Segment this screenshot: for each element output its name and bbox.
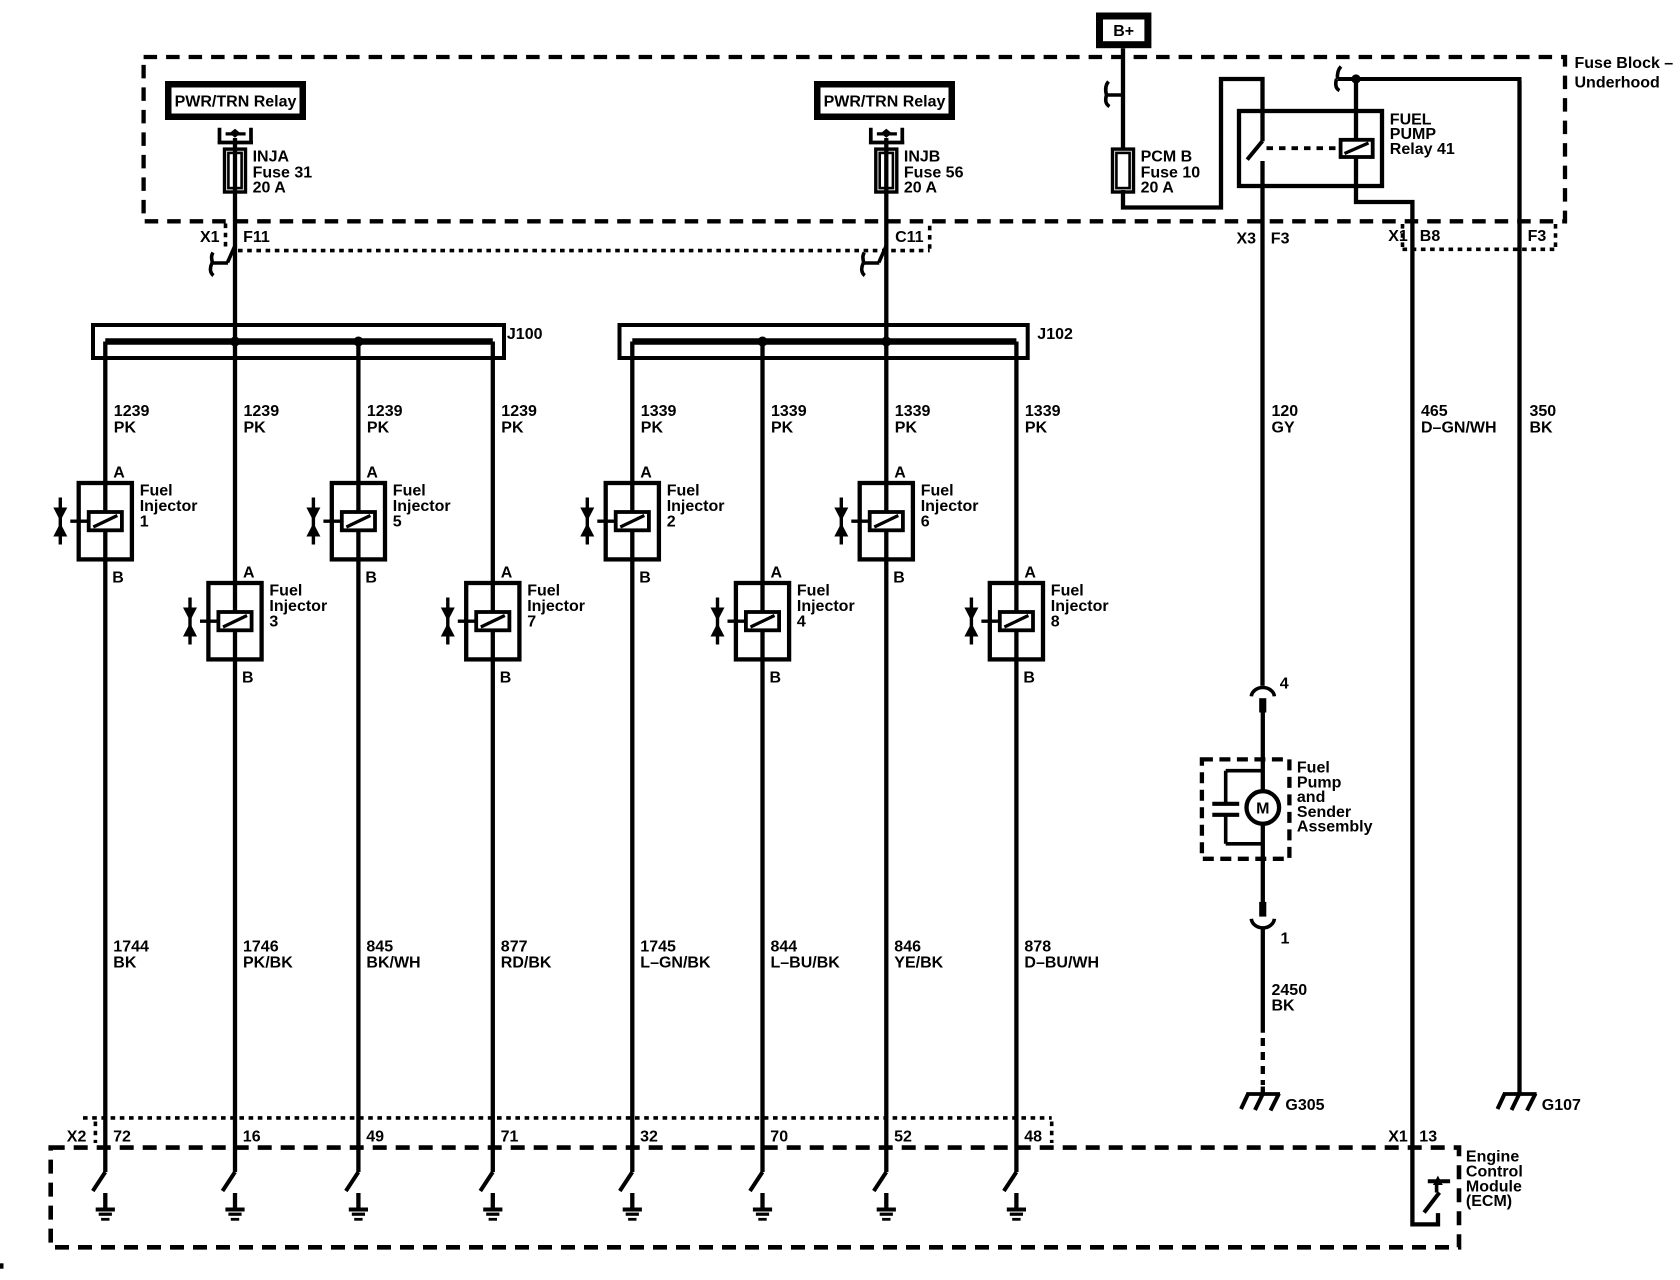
wire coil to ECM 465 D-GN/WH bbox=[1356, 157, 1438, 1224]
fuel injector 4 bbox=[736, 583, 789, 659]
svg-text:PCM B: PCM B bbox=[1141, 149, 1193, 166]
in-line connector pin 1 bbox=[1259, 902, 1266, 917]
injector 6 valve symbol bbox=[840, 498, 843, 545]
svg-text:J100: J100 bbox=[507, 326, 543, 343]
capacitor branch bbox=[1226, 771, 1263, 803]
injector 7 coil bbox=[476, 612, 509, 630]
svg-text:A: A bbox=[366, 465, 378, 482]
ECM pin 70 bent terminal bbox=[750, 1172, 763, 1191]
injector 1 stub bbox=[70, 520, 88, 523]
ground (ECM pin 48) bbox=[1014, 1193, 1018, 1209]
svg-text:72: 72 bbox=[113, 1129, 131, 1146]
ECM pin 52 bent terminal bbox=[874, 1172, 887, 1191]
svg-text:BK: BK bbox=[1272, 997, 1296, 1014]
svg-text:Assembly: Assembly bbox=[1297, 819, 1373, 836]
svg-text:878: 878 bbox=[1024, 939, 1051, 956]
svg-text:F3: F3 bbox=[1271, 231, 1290, 248]
fuel injector 2 bbox=[606, 483, 659, 559]
svg-text:B: B bbox=[112, 570, 124, 587]
svg-text:PK: PK bbox=[114, 420, 137, 437]
svg-text:B+: B+ bbox=[1113, 23, 1134, 40]
injector 5 valve symbol bbox=[312, 498, 315, 545]
svg-text:2: 2 bbox=[667, 513, 676, 530]
svg-text:71: 71 bbox=[501, 1129, 519, 1146]
svg-text:877: 877 bbox=[501, 939, 528, 956]
connector hook X1/F11 bbox=[210, 245, 235, 276]
svg-text:1339: 1339 bbox=[1025, 403, 1061, 420]
top feed bus to relay coil and F3 bbox=[1338, 79, 1520, 1093]
fuel injector 8 bbox=[990, 583, 1043, 659]
injector 3 stub bbox=[200, 620, 218, 623]
svg-text:6: 6 bbox=[921, 513, 930, 530]
svg-text:2450: 2450 bbox=[1272, 982, 1308, 999]
injector 3 coil bbox=[218, 612, 251, 630]
svg-text:4: 4 bbox=[1280, 676, 1289, 693]
injector 4 stub bbox=[728, 620, 746, 623]
svg-text:L–BU/BK: L–BU/BK bbox=[771, 955, 841, 972]
svg-text:1744: 1744 bbox=[113, 939, 149, 956]
svg-text:A: A bbox=[113, 465, 125, 482]
svg-text:A: A bbox=[640, 465, 652, 482]
svg-text:PK/BK: PK/BK bbox=[243, 955, 293, 972]
svg-text:48: 48 bbox=[1024, 1129, 1042, 1146]
battery B+ terminal box bbox=[1096, 13, 1151, 49]
svg-text:X3: X3 bbox=[1237, 231, 1257, 248]
svg-text:A: A bbox=[243, 565, 255, 582]
wire 2450 BK bbox=[1261, 930, 1265, 1033]
injector 8 coil bbox=[1000, 612, 1033, 630]
svg-text:8: 8 bbox=[1051, 613, 1060, 630]
svg-text:Fuse Block –: Fuse Block – bbox=[1575, 55, 1674, 72]
svg-text:PK: PK bbox=[501, 420, 524, 437]
svg-text:X1: X1 bbox=[1388, 1129, 1408, 1146]
page mark bottom left bbox=[0, 1263, 4, 1268]
svg-text:PK: PK bbox=[1025, 420, 1048, 437]
relay B terminal bracket bbox=[869, 128, 904, 145]
svg-text:M: M bbox=[1256, 801, 1269, 818]
svg-text:B: B bbox=[242, 670, 254, 687]
injector 8 valve symbol bbox=[970, 598, 973, 645]
wire coil feed bbox=[1354, 79, 1358, 140]
fuse INJB bbox=[876, 149, 897, 192]
wire column injector 2 bbox=[630, 342, 634, 1173]
svg-text:B: B bbox=[365, 570, 377, 587]
svg-text:B: B bbox=[893, 570, 905, 587]
svg-text:1745: 1745 bbox=[640, 939, 676, 956]
injector 7 valve symbol bbox=[446, 598, 449, 645]
fuel injector 6 bbox=[860, 483, 913, 559]
ground (ECM pin 71) bbox=[491, 1193, 495, 1209]
injector 8 stub bbox=[981, 620, 999, 623]
svg-text:INJB: INJB bbox=[904, 149, 940, 166]
ground (ECM pin 72) bbox=[103, 1193, 107, 1209]
wire B+ to PCM B fuse bbox=[1121, 48, 1125, 150]
PWR/TRN Relay box (right) bbox=[814, 81, 955, 120]
ground (ECM pin 16) bbox=[233, 1193, 237, 1209]
ground (ECM pin 52) bbox=[884, 1193, 888, 1209]
ECM pin 71 bent terminal bbox=[480, 1172, 493, 1191]
fuel injector 3 bbox=[208, 583, 261, 659]
svg-text:PK: PK bbox=[641, 420, 664, 437]
injector 4 coil bbox=[746, 612, 779, 630]
svg-text:B: B bbox=[770, 670, 782, 687]
in-line connector pin 4 bbox=[1251, 688, 1274, 697]
svg-text:BK: BK bbox=[113, 955, 137, 972]
svg-text:L–GN/BK: L–GN/BK bbox=[640, 955, 711, 972]
svg-text:X1: X1 bbox=[200, 229, 220, 246]
svg-text:BK: BK bbox=[1530, 420, 1554, 437]
ground G305 bbox=[1246, 1092, 1280, 1096]
wire relay 41 output 120 GY bbox=[1260, 161, 1264, 686]
svg-text:B: B bbox=[500, 670, 512, 687]
ECM pin 72 bent terminal bbox=[93, 1172, 106, 1191]
svg-text:J102: J102 bbox=[1037, 326, 1073, 343]
wire 350 BK down to G107 bbox=[1517, 81, 1521, 1093]
svg-text:16: 16 bbox=[243, 1129, 261, 1146]
ground (ECM pin 70) bbox=[760, 1193, 764, 1209]
relay A terminal diamond bbox=[229, 129, 240, 138]
svg-text:20 A: 20 A bbox=[1141, 179, 1175, 196]
svg-text:INJA: INJA bbox=[253, 149, 290, 166]
relay A terminal bracket bbox=[218, 128, 253, 145]
ECM pin 49 bent terminal bbox=[346, 1172, 359, 1191]
svg-text:1: 1 bbox=[1281, 931, 1290, 948]
injector 1 valve symbol bbox=[59, 498, 62, 545]
svg-text:PWR/TRN Relay: PWR/TRN Relay bbox=[175, 93, 297, 110]
dashed wire to G305 bbox=[1261, 1038, 1265, 1085]
svg-text:PK: PK bbox=[771, 420, 794, 437]
fuse PCM B bbox=[1113, 149, 1134, 192]
svg-text:465: 465 bbox=[1421, 403, 1448, 420]
svg-text:350: 350 bbox=[1530, 403, 1557, 420]
relay 41 switch arm bbox=[1247, 141, 1262, 160]
svg-text:X2: X2 bbox=[67, 1129, 87, 1146]
svg-text:PK: PK bbox=[367, 420, 390, 437]
svg-text:B: B bbox=[639, 570, 651, 587]
ECM pin 13 internal terminal bbox=[1424, 1193, 1439, 1213]
svg-text:A: A bbox=[771, 565, 783, 582]
injector 6 coil bbox=[870, 512, 903, 530]
svg-text:Relay 41: Relay 41 bbox=[1390, 141, 1455, 158]
ECM pin 32 bent terminal bbox=[620, 1172, 633, 1191]
svg-text:C11: C11 bbox=[895, 229, 924, 246]
svg-text:1339: 1339 bbox=[895, 403, 931, 420]
connector hook on B+ wire bbox=[1106, 82, 1123, 107]
svg-text:7: 7 bbox=[527, 613, 536, 630]
wire column injector 8 bbox=[1014, 342, 1018, 1173]
fuel injector 1 bbox=[79, 483, 132, 559]
svg-text:(ECM): (ECM) bbox=[1466, 1193, 1512, 1210]
svg-text:A: A bbox=[894, 465, 906, 482]
svg-text:32: 32 bbox=[640, 1129, 658, 1146]
svg-text:49: 49 bbox=[366, 1129, 384, 1146]
injector 2 valve symbol bbox=[586, 498, 589, 545]
svg-text:1239: 1239 bbox=[114, 403, 150, 420]
svg-text:D–BU/WH: D–BU/WH bbox=[1024, 955, 1099, 972]
wire column injector 7 bbox=[491, 342, 495, 1173]
svg-text:1: 1 bbox=[140, 513, 149, 530]
wire through fuel pump bbox=[1261, 713, 1265, 903]
PWR/TRN Relay box (left) bbox=[165, 81, 306, 120]
svg-text:20 A: 20 A bbox=[904, 179, 938, 196]
wire 1339 PK feed bbox=[884, 138, 888, 342]
connector row dotted line (fuse block bottom) bbox=[238, 249, 930, 253]
ground (ECM pin 32) bbox=[630, 1193, 634, 1209]
ECM pin 48 bent terminal bbox=[1004, 1172, 1017, 1191]
injector 5 coil bbox=[342, 512, 375, 530]
injector 3 valve symbol bbox=[188, 598, 191, 645]
J102 junction dots bbox=[758, 337, 768, 347]
relay B terminal diamond bbox=[881, 129, 892, 138]
svg-text:PWR/TRN Relay: PWR/TRN Relay bbox=[824, 93, 946, 110]
svg-text:13: 13 bbox=[1419, 1129, 1437, 1146]
svg-text:G107: G107 bbox=[1542, 1097, 1581, 1114]
wire column injector 1 bbox=[103, 342, 107, 1173]
injector 7 stub bbox=[458, 620, 476, 623]
svg-text:4: 4 bbox=[797, 613, 806, 630]
ground (ECM pin 49) bbox=[356, 1193, 360, 1209]
svg-text:1239: 1239 bbox=[244, 403, 280, 420]
svg-text:PK: PK bbox=[244, 420, 267, 437]
svg-text:20 A: 20 A bbox=[253, 179, 287, 196]
wire 1239 PK feed bbox=[233, 138, 237, 342]
svg-text:D–GN/WH: D–GN/WH bbox=[1421, 420, 1497, 437]
fuel injector 5 bbox=[332, 483, 385, 559]
svg-text:Underhood: Underhood bbox=[1575, 74, 1660, 91]
injector 1 coil bbox=[89, 512, 122, 530]
svg-text:120: 120 bbox=[1272, 403, 1299, 420]
svg-text:A: A bbox=[501, 565, 513, 582]
ground G107 bbox=[1503, 1092, 1537, 1096]
wire column injector 5 bbox=[356, 342, 360, 1173]
fuel pump and sender assembly dashed box bbox=[1202, 759, 1290, 858]
injector 4 valve symbol bbox=[716, 598, 719, 645]
wire column injector 3 bbox=[233, 342, 237, 1173]
svg-text:F11: F11 bbox=[243, 229, 270, 246]
svg-text:70: 70 bbox=[770, 1129, 788, 1146]
svg-text:F3: F3 bbox=[1528, 228, 1547, 245]
wire PCM B fuse to relay 41 switch bbox=[1123, 79, 1263, 208]
svg-text:X1: X1 bbox=[1388, 228, 1408, 245]
svg-text:844: 844 bbox=[771, 939, 798, 956]
fuel pump motor bbox=[1247, 791, 1280, 824]
svg-text:BK/WH: BK/WH bbox=[366, 955, 420, 972]
ECM connector dotted line X2 row bbox=[83, 1116, 1052, 1120]
fuel pump relay 41 box bbox=[1239, 111, 1382, 186]
svg-text:1339: 1339 bbox=[641, 403, 677, 420]
fuel injector 7 bbox=[466, 583, 519, 659]
connector hook on coil feed bbox=[1336, 67, 1341, 91]
splice pack J100 bbox=[93, 325, 504, 358]
injector 6 stub bbox=[851, 520, 869, 523]
injector 2 coil bbox=[616, 512, 649, 530]
svg-text:RD/BK: RD/BK bbox=[501, 955, 552, 972]
svg-text:1239: 1239 bbox=[501, 403, 537, 420]
engine control module dashed box bbox=[51, 1148, 1459, 1248]
relay 41 dashed actuation link bbox=[1267, 146, 1341, 150]
junction dot bbox=[1351, 74, 1360, 83]
svg-text:3: 3 bbox=[269, 613, 278, 630]
injector 5 stub bbox=[323, 520, 341, 523]
splice pack J102 bbox=[620, 325, 1028, 358]
svg-text:1239: 1239 bbox=[367, 403, 403, 420]
svg-text:52: 52 bbox=[894, 1129, 912, 1146]
injector 2 stub bbox=[597, 520, 615, 523]
svg-text:PK: PK bbox=[895, 420, 918, 437]
svg-text:5: 5 bbox=[393, 513, 402, 530]
svg-text:845: 845 bbox=[366, 939, 393, 956]
J100 junction dots bbox=[230, 337, 240, 347]
svg-text:A: A bbox=[1024, 565, 1036, 582]
svg-text:B8: B8 bbox=[1420, 228, 1441, 245]
svg-text:YE/BK: YE/BK bbox=[894, 955, 943, 972]
fuse block underhood dashed border bbox=[144, 57, 1565, 221]
svg-text:846: 846 bbox=[894, 939, 921, 956]
connector hook C11 bbox=[862, 245, 887, 276]
svg-text:GY: GY bbox=[1272, 420, 1295, 437]
connector box X1/B8/F3 dotted bbox=[1403, 224, 1556, 249]
svg-text:B: B bbox=[1023, 670, 1035, 687]
svg-text:1339: 1339 bbox=[771, 403, 807, 420]
svg-text:1746: 1746 bbox=[243, 939, 279, 956]
fuse INJA bbox=[225, 149, 246, 192]
ECM pin 16 bent terminal bbox=[223, 1172, 236, 1191]
relay 41 coil bbox=[1341, 140, 1373, 157]
wire column injector 6 bbox=[884, 342, 888, 1173]
svg-text:G305: G305 bbox=[1285, 1097, 1324, 1114]
wire column injector 4 bbox=[760, 342, 764, 1173]
